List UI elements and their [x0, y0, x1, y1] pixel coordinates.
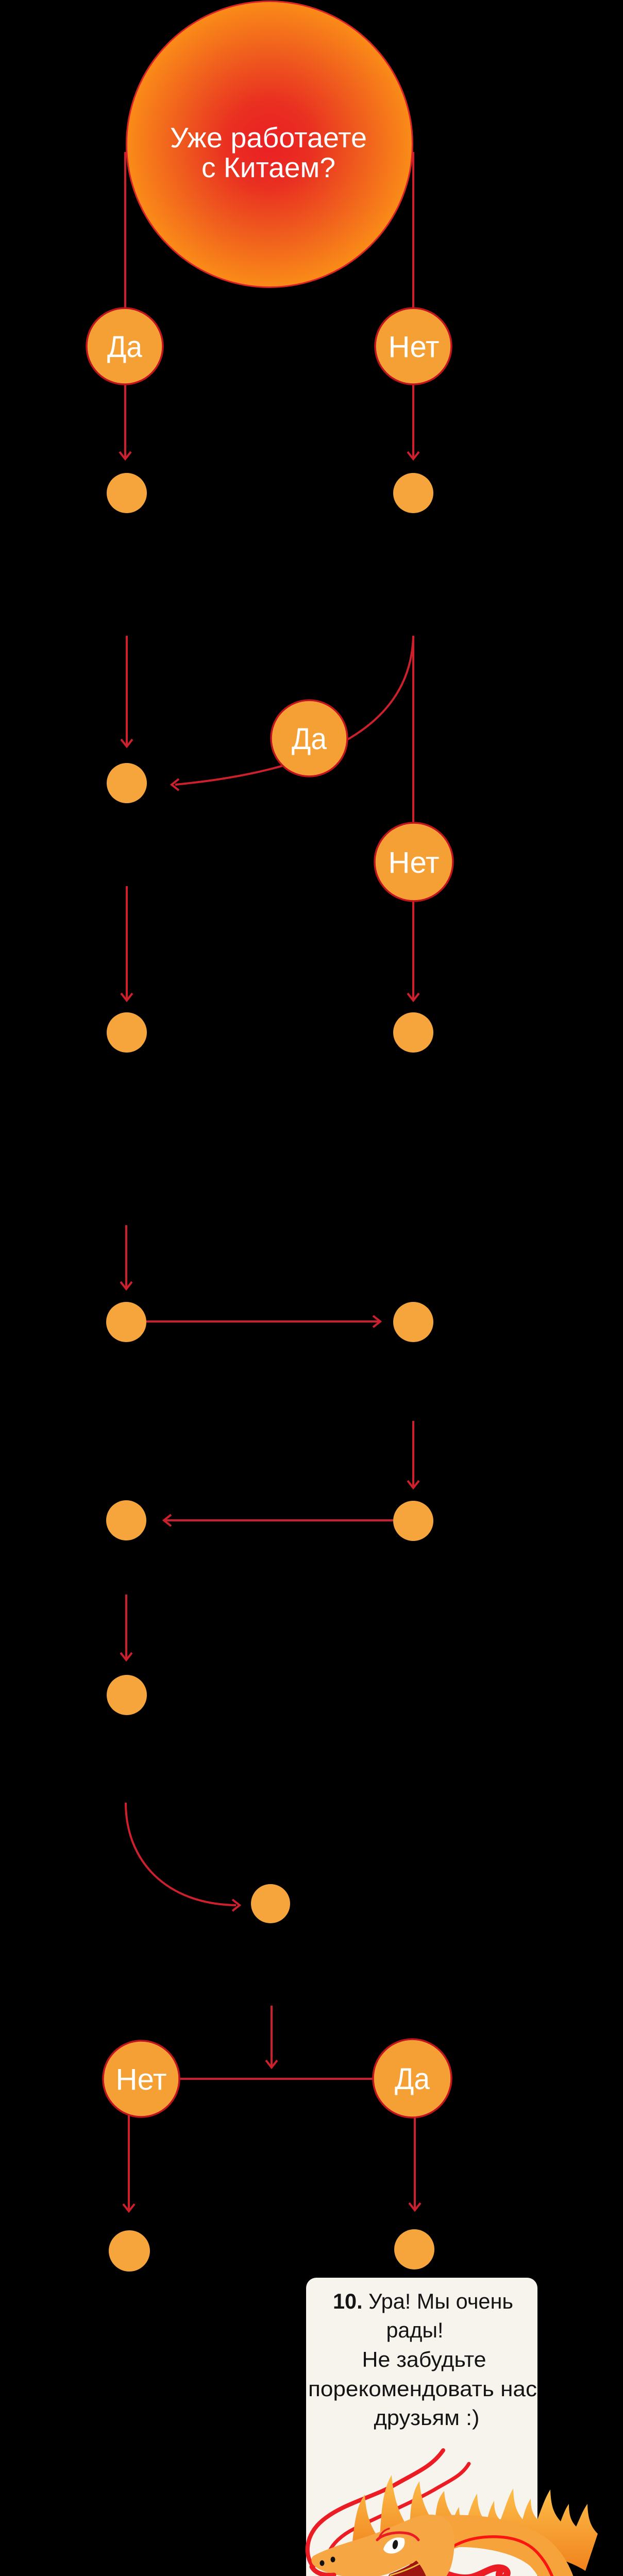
dragon red centre line outer: [356, 2537, 561, 2576]
node: dot 9: [251, 1884, 290, 1923]
dragon head: [311, 2515, 507, 2576]
node: dot 7: [106, 1500, 146, 1540]
wire: big circle to Net1: [408, 152, 419, 459]
wire: dot7 to dot8: [121, 1595, 132, 1660]
dragon illustration: [291, 2450, 622, 2576]
dragon whisker 1: [308, 2450, 443, 2567]
wire: Net3 to dot10: [123, 2115, 134, 2211]
node: label Da 2: [271, 700, 347, 776]
dragon inner loop redrawn: [350, 2531, 566, 2576]
node: dot 10: [109, 2230, 150, 2272]
wire: dot3L to dot4: [121, 1225, 132, 1289]
node: dot 6: [393, 1501, 433, 1541]
wire: dot1L to dot2: [121, 636, 132, 747]
wire: dot9 down to bar: [266, 2006, 277, 2067]
dragon whisker 2: [327, 2464, 469, 2574]
svg-text:Да: Да: [395, 2062, 430, 2096]
dragon eye: [383, 2537, 405, 2553]
node: label Da 1: [87, 308, 163, 384]
svg-text:рады!: рады!: [386, 2318, 444, 2342]
node: label Da 3: [373, 2039, 451, 2117]
wire: bar between Net3 and Da3: [180, 2078, 373, 2080]
dragon maw interior: [388, 2561, 427, 2576]
node: dot 3L: [107, 1012, 147, 1053]
node: dot 1L: [107, 473, 147, 513]
wire: dot5 to dot6: [408, 1421, 419, 1488]
node: question 1 big circle: [127, 2, 413, 287]
dragon mane fringe: [415, 2488, 598, 2571]
svg-text:Да: Да: [292, 722, 327, 756]
node: dot 4: [106, 1302, 146, 1342]
node: label Net 2: [375, 823, 453, 901]
svg-text:порекомендовать нас: порекомендовать нас: [308, 2377, 537, 2401]
wire: big circle to Da1: [120, 152, 131, 459]
node: result card 10: [306, 2278, 537, 2576]
svg-text:Нет: Нет: [389, 330, 440, 364]
svg-text:Нет: Нет: [389, 846, 440, 879]
dragon outer body loop: [350, 2531, 566, 2576]
wire: Da3 to dot11: [409, 2116, 420, 2210]
node: dot 11: [394, 2229, 434, 2269]
node: dot 2: [107, 763, 147, 803]
svg-text:Не забудьте: Не забудьте: [362, 2347, 486, 2371]
dragon nostrils: [320, 2561, 325, 2566]
dragon outer loop spikes: [514, 2548, 592, 2576]
svg-text:Нет: Нет: [116, 2063, 167, 2096]
node: label Net 1: [375, 308, 451, 384]
dragon head crest: [352, 2475, 466, 2557]
svg-text:друзьям :): друзьям :): [374, 2405, 480, 2430]
svg-text:с Китаем?: с Китаем?: [201, 151, 335, 183]
node: dot 1R: [393, 473, 433, 513]
dragon tongue: [412, 2566, 507, 2576]
wire: dot1R down through Net2: [408, 636, 419, 1001]
dragon head base: [311, 2515, 454, 2576]
node: dot 5: [393, 1302, 433, 1342]
svg-text:Уже работаете: Уже работаете: [170, 122, 367, 154]
wire: curved dot8 to dot9: [126, 1803, 240, 1911]
dragon upper teeth: [330, 2574, 367, 2576]
wire: dot6 to dot7 horizontal: [164, 1515, 393, 1526]
node: dot 8: [107, 1675, 147, 1715]
wire: curve branch Da to dot2: [172, 636, 413, 790]
svg-text:Да: Да: [107, 330, 143, 364]
wire: dot4 to dot5 horizontal: [146, 1316, 380, 1327]
node: label Net 3: [103, 2041, 179, 2117]
dragon eyebrow: [377, 2533, 418, 2540]
svg-text:10. Ура! Мы очень: 10. Ура! Мы очень: [333, 2289, 513, 2313]
wire: dot2 to dot3: [121, 886, 132, 1001]
node: dot 3R: [393, 1012, 433, 1053]
dragon nose lip: [312, 2567, 334, 2575]
